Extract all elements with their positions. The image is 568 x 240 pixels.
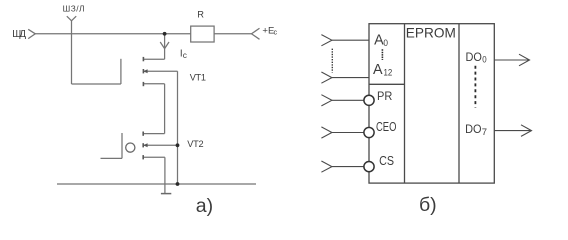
wire SHZ/L vertical [71, 21, 73, 84]
inversion circle PR [364, 95, 374, 105]
wire A0 [332, 39, 369, 41]
dotted line between A inputs [331, 49, 333, 73]
input arrow CS [321, 161, 332, 172]
wire substrate vertical [177, 71, 179, 184]
svg-text:DO: DO [466, 50, 482, 64]
svg-text:R: R [197, 9, 204, 19]
ground bar [161, 193, 171, 195]
svg-text:c: c [183, 50, 187, 60]
VT1 gate electrode [120, 59, 122, 84]
VT2 channel ticks [142, 132, 144, 160]
VT2 gate electrode [121, 133, 123, 158]
terminal +Ec arrow [252, 28, 260, 39]
svg-text:c: c [274, 28, 278, 37]
VT1 channel ticks [142, 57, 144, 86]
wire VT1 drain lead [143, 58, 164, 60]
svg-text:CEO: CEO [376, 120, 396, 134]
Ic current arrowhead [160, 42, 169, 49]
wire bottom rail [57, 183, 256, 185]
wire CS [332, 166, 364, 168]
input arrow A0 [321, 35, 332, 46]
dotted line between DO0 and DO7 [474, 66, 476, 108]
resistor R [191, 26, 214, 42]
svg-text:а): а) [196, 195, 213, 217]
output arrow DO0 [519, 54, 530, 66]
inversion circle CS [364, 162, 374, 172]
svg-text:PR: PR [377, 89, 393, 103]
inner divider line 1 [404, 24, 406, 183]
svg-text:+E: +E [262, 26, 274, 37]
wire VT2 gate stub [101, 157, 123, 159]
wire VT1 source down [164, 84, 166, 134]
wire PR [332, 99, 364, 101]
dotted line between A0 and A12 [381, 49, 383, 60]
wire VT2 source down to ground [164, 157, 166, 193]
wire VT2 source lead [143, 156, 165, 158]
svg-text:12: 12 [384, 68, 393, 79]
wire gate hook horizontal [72, 83, 121, 85]
terminal SHZ/L arrow [67, 16, 76, 21]
wire VT2 substrate lead [143, 144, 177, 146]
svg-text:7: 7 [482, 127, 487, 138]
svg-text:VT1: VT1 [190, 72, 206, 82]
wire resistor to +Ec [214, 33, 251, 35]
node drain junction [163, 32, 167, 36]
input arrow PR [321, 95, 332, 106]
input arrow CEO [321, 127, 332, 138]
VT2 floating gate circle [126, 143, 135, 152]
EPROM block outline [369, 24, 494, 183]
svg-text:EPROM: EPROM [406, 25, 456, 40]
wire CEO [332, 132, 364, 134]
divider under A12 [369, 83, 405, 85]
VT2 substrate arrowhead [143, 143, 147, 147]
VT1 substrate arrowhead [143, 69, 147, 73]
node rail junction [176, 182, 180, 186]
input arrow A12 [321, 72, 332, 83]
svg-text:0: 0 [482, 54, 486, 64]
svg-text:ШД: ШД [12, 29, 26, 40]
wire output DO0 [494, 59, 529, 61]
wire output DO7 [494, 130, 531, 132]
inner divider line 2 [458, 24, 460, 183]
wire VT1 substrate lead [143, 70, 177, 72]
wire Ic drain vertical [164, 34, 166, 59]
svg-text:VT2: VT2 [187, 139, 203, 149]
svg-text:DO: DO [465, 122, 481, 136]
svg-text:0: 0 [383, 38, 388, 49]
wire A12 [332, 77, 369, 79]
svg-text:A: A [373, 62, 383, 78]
inversion circle CEO [364, 127, 374, 137]
node substrate junction [176, 143, 180, 147]
terminal ShD arrow [28, 29, 35, 38]
wire VT1 source lead [143, 83, 164, 85]
output arrow DO7 [521, 125, 532, 137]
svg-text:б): б) [419, 194, 437, 216]
wire top rail [35, 33, 190, 35]
wire VT2 drain lead [143, 133, 164, 135]
svg-text:ШЗ/Л: ШЗ/Л [63, 4, 85, 14]
svg-text:CS: CS [379, 154, 394, 168]
